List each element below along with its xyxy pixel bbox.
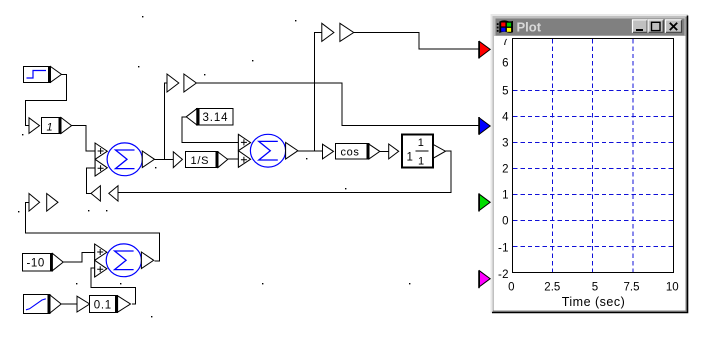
integrator block 1/S: [173, 152, 227, 168]
plot window client area: [494, 36, 686, 311]
svg-text:0.1: 0.1: [94, 299, 112, 311]
svg-text:0: 0: [508, 282, 514, 294]
svg-text:1: 1: [502, 190, 509, 202]
wire node tap sum2 out up to pins2: [314, 33, 321, 151]
wire integrator to sum2 bottom input: [228, 158, 239, 160]
svg-text:1: 1: [418, 137, 424, 149]
svg-text:3: 3: [502, 138, 509, 150]
horizontal gridlines: [513, 91, 673, 247]
vertical gridlines: [552, 39, 633, 272]
svg-text:cos: cos: [341, 147, 360, 159]
close button: [666, 20, 682, 33]
plot window frame: [492, 15, 689, 313]
noise specks: [18, 16, 410, 317]
svg-text:-2: -2: [498, 269, 509, 281]
wire node tap sum1 out up to pins1: [165, 83, 167, 159]
summing junction U1: [95, 143, 154, 176]
x axis title: [562, 295, 626, 309]
wire sum2 output to cos: [298, 150, 323, 152]
step block: [24, 66, 62, 83]
svg-text:7.5: 7.5: [624, 282, 640, 294]
wire ramp to gain 0.1: [61, 303, 77, 305]
wire pins1 to blue plot input: [196, 83, 478, 126]
svg-text:2: 2: [502, 164, 509, 176]
svg-text:2.5: 2.5: [544, 282, 560, 294]
wire gain 0.1 to sum3 bottom input: [91, 268, 135, 304]
plot axes box: [513, 39, 674, 273]
wire pins2 to red plot input: [354, 33, 479, 49]
summing junction U3: [95, 244, 154, 277]
wire step to gain: [26, 74, 67, 125]
svg-text:10: 10: [666, 282, 679, 294]
clip top of 7 label: [498, 36, 511, 39]
maximize button: [648, 20, 663, 33]
wire gain to sum1 top input: [72, 126, 96, 151]
svg-text:-10: -10: [27, 257, 45, 269]
plot window icon: [497, 20, 513, 33]
wire sum3 output loop to pins4: [26, 202, 160, 261]
svg-text:0: 0: [502, 216, 509, 228]
y axis labels: [498, 36, 509, 281]
transfer function block 1/1: [389, 135, 446, 168]
minimize button: [633, 20, 648, 33]
wire pins3 to sum1 bottom input: [87, 168, 96, 193]
svg-text:4: 4: [502, 112, 509, 124]
svg-text:3.14: 3.14: [203, 112, 229, 124]
svg-text:1: 1: [418, 155, 424, 167]
const block 3.14: [186, 108, 233, 126]
gain block 0.1: [77, 295, 131, 313]
plot title bar: [496, 19, 685, 36]
svg-text:Time (sec): Time (sec): [562, 295, 626, 309]
svg-text:5: 5: [592, 282, 598, 294]
wire transfer fn feedback to pins3: [118, 151, 451, 192]
pin pair P2: [322, 23, 354, 41]
blue plot input arrow: [479, 117, 490, 135]
pin pair P4: [29, 194, 58, 212]
cos block: [323, 144, 380, 160]
svg-text:1/S: 1/S: [191, 155, 210, 167]
svg-text:Plot: Plot: [517, 20, 542, 35]
const block -10: [23, 253, 64, 272]
svg-text:6: 6: [502, 58, 509, 70]
svg-text:1: 1: [407, 152, 413, 164]
svg-text:-1: -1: [498, 243, 509, 255]
svg-text:1: 1: [47, 121, 53, 133]
green plot input arrow: [479, 193, 490, 211]
pin pair P1: [167, 74, 196, 92]
summing junction U2: [238, 134, 298, 167]
svg-text:5: 5: [502, 86, 509, 98]
wire const -10 to sum3 top input: [63, 252, 94, 262]
ramp block: [24, 294, 62, 314]
red plot input arrow: [479, 41, 490, 59]
magenta plot input arrow: [479, 270, 490, 288]
x axis labels: [508, 282, 679, 294]
wire cos to transfer fn: [380, 150, 389, 152]
pin pair P3 left-pointing: [91, 186, 118, 201]
gain block 1: [29, 117, 72, 134]
wire sum1 output to integrator: [155, 158, 174, 160]
plot window title text: [517, 20, 542, 35]
wire const 3.14 to sum2 top input: [182, 117, 239, 143]
